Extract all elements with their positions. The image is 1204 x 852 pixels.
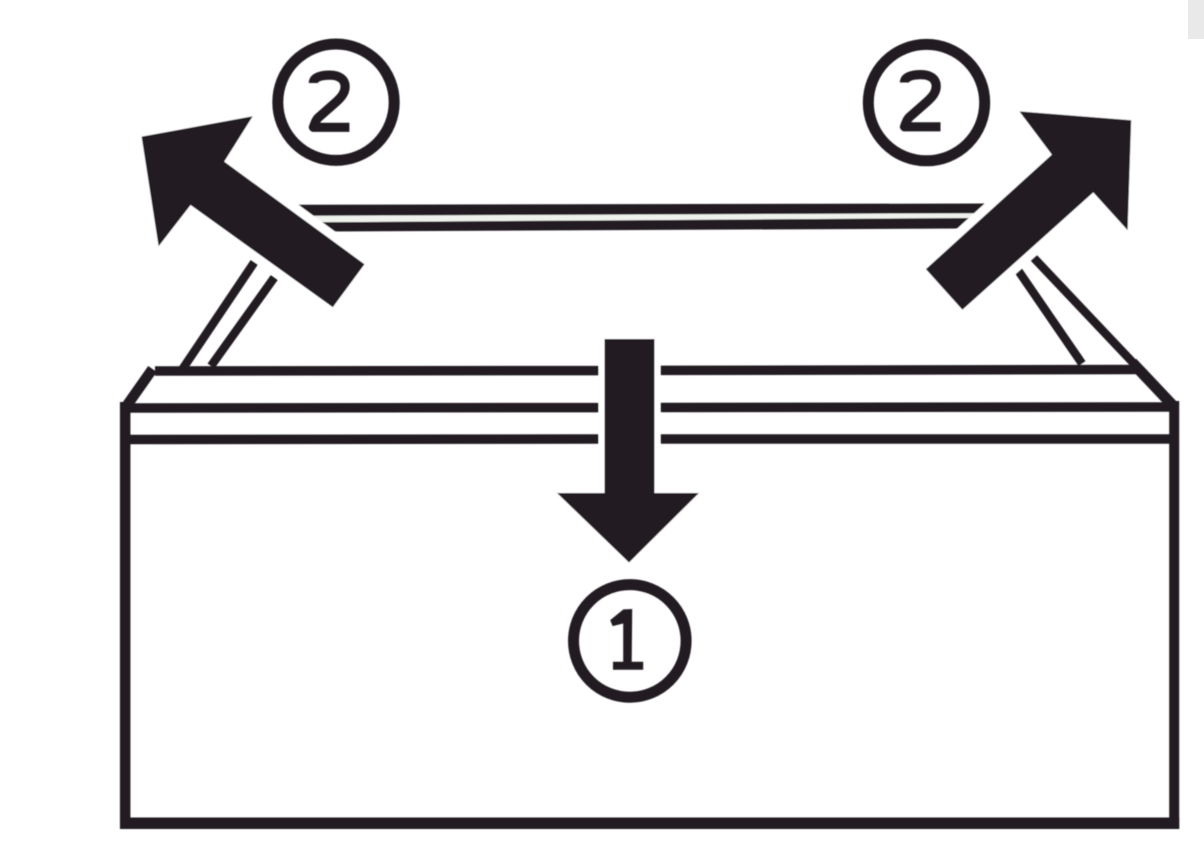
right strut outer — [1033, 257, 1140, 370]
lid right bevel — [1136, 367, 1170, 403]
box top rim line (right segment) — [661, 434, 1171, 444]
box left wall — [120, 402, 131, 829]
right strut inner — [1018, 270, 1083, 364]
gray scan patch top-right — [1188, 0, 1204, 39]
digit 2 right — [905, 75, 941, 127]
arrow 2 left (up-left) — [142, 116, 365, 307]
left strut outer — [183, 262, 255, 369]
lid bottom edge line (left segment) — [124, 403, 599, 413]
circle badge 1 center — [574, 585, 687, 698]
arrow 1 down (center), white halo — [557, 339, 699, 563]
arrow 2 right (up-right) — [926, 111, 1131, 309]
box lid top edge line (left segment) — [155, 366, 599, 376]
arrow 2 left (up-left), white halo — [142, 116, 365, 307]
lid bottom edge line (right segment) — [661, 402, 1172, 412]
digit 2 left — [313, 75, 349, 127]
left strut inner — [211, 278, 274, 367]
lid left bevel — [127, 369, 153, 406]
circle badge 2 left — [278, 44, 394, 160]
box bottom — [120, 817, 1179, 829]
arrow 2 right (up-right), white halo — [926, 111, 1131, 309]
box right wall — [1169, 401, 1179, 829]
digit 1 center — [610, 609, 643, 670]
circle badge 2 right — [868, 44, 984, 160]
handle bar — [295, 204, 988, 232]
arrow 1 down (center) — [557, 339, 699, 563]
handle bar light stripe — [309, 213, 977, 222]
box top rim line (left segment) — [121, 434, 599, 444]
box lid top edge line (right segment) — [661, 365, 1138, 375]
